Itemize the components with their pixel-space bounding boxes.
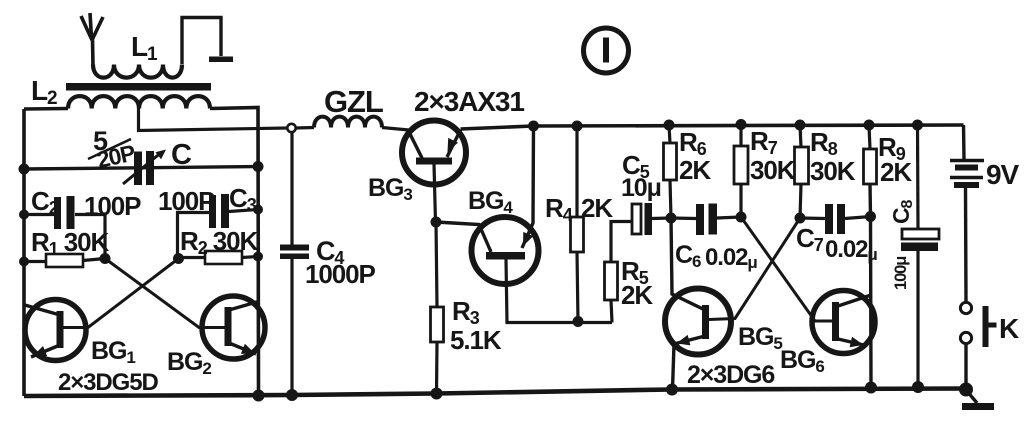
capacitor C8 — [901, 125, 939, 387]
label R4 2K — [545, 193, 613, 225]
wire: L1 to antenna ground — [182, 18, 221, 65]
svg-text:9V: 9V — [986, 159, 1019, 190]
label 100P (C2) — [84, 191, 141, 221]
label 2x3DG6 — [687, 361, 774, 389]
wire: bottom ground rail — [24, 389, 966, 397]
battery 9V — [950, 125, 984, 303]
svg-text:2×3AX31: 2×3AX31 — [414, 86, 524, 117]
resistor R1 — [24, 254, 105, 267]
svg-text:10μ: 10μ — [621, 174, 661, 202]
svg-text:GZL: GZL — [324, 84, 383, 119]
svg-text:2K: 2K — [581, 193, 613, 223]
label BG5 — [738, 323, 782, 353]
label BG4 — [468, 187, 513, 217]
label GZL — [324, 84, 383, 119]
wire: cross-couple to BG6 base — [741, 217, 832, 321]
inductor L1 — [93, 65, 182, 78]
variable capacitor C plates — [134, 151, 154, 185]
node: battery/ground junction — [959, 383, 973, 397]
label 9V — [986, 159, 1019, 190]
node B (C3/R2 junction) — [173, 253, 184, 264]
transistor BG5 — [665, 218, 731, 390]
node: left rail / C2 row — [19, 210, 29, 220]
label R6 2K — [679, 127, 711, 185]
label C2 — [31, 186, 59, 218]
svg-text:100P: 100P — [84, 191, 141, 221]
node: left rail / tuning row — [19, 164, 30, 175]
transistor BG6 — [812, 291, 875, 354]
resistor R6 — [664, 125, 677, 218]
capacitor C6 — [671, 204, 741, 236]
capacitor C2 — [24, 196, 105, 259]
label R2 30K — [180, 226, 258, 258]
inductor GZL — [296, 117, 410, 130]
wire: top supply rail — [461, 125, 964, 129]
node: C7/R9/BG6 junction — [865, 211, 876, 222]
capacitor C5 — [632, 203, 671, 235]
label C4 — [316, 236, 344, 268]
label K — [999, 313, 1019, 344]
node: BG4 emitter riser / top rail — [528, 121, 539, 132]
node A (C2/R1 junction) — [100, 253, 111, 264]
label 2x3AX31 — [414, 86, 524, 117]
wire: L2 tap to GZL — [139, 109, 288, 131]
wire: cross-couple node B to BG1 base — [62, 259, 179, 328]
wire: L2 right end down right rail — [210, 108, 259, 397]
resistor R5 — [605, 222, 633, 323]
node: R8 top — [795, 120, 806, 131]
node: R4 top — [572, 121, 583, 132]
svg-text:2K: 2K — [679, 155, 711, 185]
svg-text:5.1K: 5.1K — [450, 325, 502, 355]
node: C4 bottom — [286, 389, 298, 401]
label R3 5.1K — [450, 296, 502, 355]
wire: L2 left end to rail — [24, 107, 68, 111]
node: R9 top — [864, 120, 875, 131]
svg-text:K: K — [999, 313, 1019, 344]
label 5/20P — [88, 126, 138, 173]
capacitor C7 — [800, 204, 871, 234]
transistor BG2 — [202, 296, 265, 359]
terminal circle (GZL left) — [287, 124, 295, 132]
node: R7 top — [736, 119, 747, 130]
svg-text:2K: 2K — [880, 157, 912, 187]
label C6 0.02u — [675, 241, 757, 272]
label R8 30K — [810, 127, 856, 186]
svg-text:100P: 100P — [158, 186, 215, 216]
label 100P (C3) — [158, 186, 215, 216]
wire: cross-couple to BG5 base — [709, 218, 800, 320]
label 100u (rotated) — [892, 257, 910, 290]
node: right rail bottom — [253, 390, 265, 402]
label R5 2K — [621, 256, 653, 310]
ground (antenna) — [209, 57, 233, 63]
node: R3 bottom — [431, 388, 443, 400]
label BG1 — [91, 337, 135, 367]
node: left rail / R1 row — [19, 257, 29, 267]
resistor R3 — [431, 222, 444, 394]
svg-text:R2 30K: R2 30K — [180, 226, 258, 258]
variable capacitor C arrow — [123, 150, 166, 185]
label C3 — [229, 183, 257, 215]
node: BG6 emitter / ground rail — [865, 382, 877, 394]
svg-text:1000P: 1000P — [305, 259, 375, 289]
node: right rail / C3 row — [253, 205, 263, 215]
label L1 — [131, 31, 158, 65]
label 1000P — [305, 259, 375, 289]
resistor R8 — [795, 125, 809, 218]
inductor L2 — [68, 96, 210, 108]
label C8 (rotated) — [888, 199, 916, 224]
node: C5/R6/C6/BG5 junction — [666, 213, 677, 224]
resistor R2 — [179, 251, 259, 264]
label R9 2K — [878, 132, 912, 187]
svg-text:2×3DG5D: 2×3DG5D — [58, 369, 158, 396]
wire: cross-couple node A to BG2 base — [105, 259, 225, 328]
resistor R7 — [734, 125, 748, 218]
ground (battery) — [962, 390, 994, 410]
node: C8 top — [912, 120, 923, 131]
svg-text:100μ: 100μ — [892, 257, 910, 290]
svg-text:2K: 2K — [621, 280, 653, 310]
label BG6 — [780, 346, 824, 376]
label C7 0.02u — [796, 223, 877, 264]
node: right rail / tuning row — [253, 161, 264, 172]
node: R8/C7/BG5-base junction — [795, 213, 806, 224]
label R1 30K — [31, 227, 109, 259]
transistor BG1 — [23, 300, 86, 361]
label C (variable cap) — [171, 139, 192, 171]
svg-text:30K: 30K — [810, 156, 856, 186]
capacitor C3 — [178, 194, 259, 259]
node: C6/R7/BG6-base junction — [736, 212, 747, 223]
wire: left rail — [22, 109, 26, 396]
svg-text:R1 30K: R1 30K — [31, 227, 109, 259]
resistor R4 — [571, 126, 584, 322]
label BG3 — [368, 174, 412, 204]
label L2 — [31, 75, 57, 109]
label R7 30K — [750, 126, 796, 185]
node: BG3 base junction — [431, 217, 442, 228]
node: R4 bottom — [573, 316, 584, 327]
label BG2 — [167, 348, 211, 378]
capacitor C4 — [280, 132, 309, 395]
antenna — [81, 13, 103, 66]
transistor BG3 — [402, 121, 466, 223]
node: C8 bottom — [912, 381, 924, 393]
node: R6 top — [664, 120, 675, 131]
node: BG5 emitter / ground rail — [666, 384, 678, 396]
wire: tuning row (left rail to right rail) — [24, 167, 258, 170]
svg-text:30K: 30K — [750, 155, 796, 185]
circled figure number 1 — [584, 28, 629, 73]
label C5 10u — [621, 150, 661, 202]
svg-text:C: C — [171, 139, 192, 171]
svg-text:2×3DG6: 2×3DG6 — [687, 361, 774, 389]
label 2x3DG5D — [58, 369, 158, 396]
transistor BG4 — [436, 126, 612, 323]
resistor R9 — [864, 125, 877, 388]
switch K — [960, 302, 996, 390]
node: right rail / R2 row — [253, 252, 263, 262]
core bar between L1 and L2 — [66, 83, 211, 91]
